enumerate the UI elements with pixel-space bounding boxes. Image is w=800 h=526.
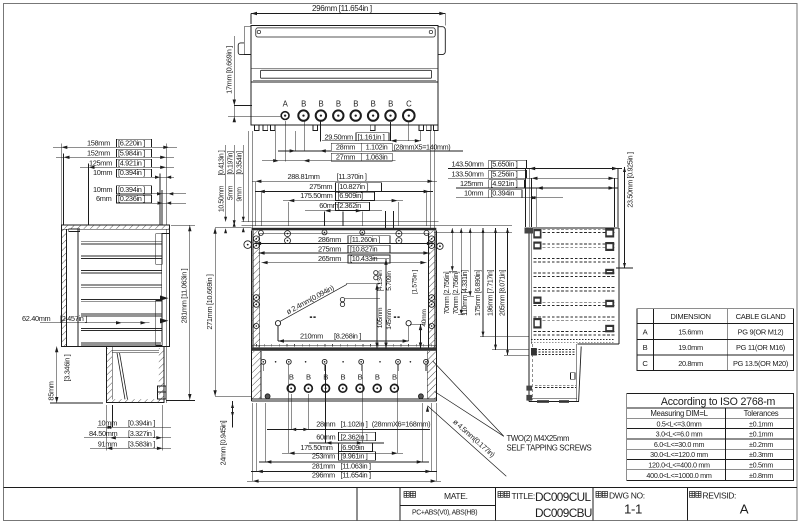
front view phi2.4 hole right [406, 321, 411, 326]
tolerance table [627, 394, 794, 481]
dim 40mm vertical interior [420, 324, 422, 348]
svg-text:3.0<L<=6.0 mm: 3.0<L<=6.0 mm [656, 430, 703, 439]
svg-text:[2.457in ]: [2.457in ] [60, 314, 87, 323]
front view interior dash marks [310, 316, 312, 318]
left view hatched lid band [62, 226, 169, 229]
svg-text:According to ISO 2768-m: According to ISO 2768-m [661, 396, 776, 408]
svg-text:[5.256in ]: [5.256in ] [491, 169, 518, 178]
front view bottom edges [252, 398, 437, 400]
svg-text:±0.1mm: ±0.1mm [749, 419, 773, 428]
svg-text:±0.2mm: ±0.2mm [749, 440, 773, 449]
dim 296mm bottom [247, 480, 441, 482]
right view inner wall line [531, 228, 533, 344]
svg-text:9mm: 9mm [236, 187, 243, 202]
svg-text:62.40mm: 62.40mm [22, 314, 51, 323]
svg-text:152mm: 152mm [87, 148, 110, 157]
svg-text:17mm [0.669in ]: 17mm [0.669in ] [225, 46, 234, 94]
svg-text:1-1: 1-1 [624, 502, 642, 517]
svg-text:[0.236in ]: [0.236in ] [118, 194, 145, 203]
front view phi2.4 hole left [275, 321, 280, 326]
svg-text:DC009CBU: DC009CBU [535, 506, 592, 520]
svg-text:253mm: 253mm [312, 452, 335, 461]
svg-text:±0.5mm: ±0.5mm [749, 461, 773, 470]
dims 70/70/110/175/196/205 columns [451, 228, 453, 271]
title block title cell [498, 492, 503, 498]
svg-text:[11.370in ]: [11.370in ] [337, 172, 367, 181]
svg-text:A: A [643, 328, 649, 337]
svg-text:PG 13.5(OR M20): PG 13.5(OR M20) [733, 359, 788, 368]
svg-text:85mm: 85mm [47, 381, 56, 400]
svg-text:110mm [4.331in]: 110mm [4.331in] [462, 270, 469, 316]
svg-text:PG 11(OR M16): PG 11(OR M16) [736, 343, 785, 352]
cable gland table [637, 309, 794, 371]
top view right tab [438, 27, 445, 55]
svg-text:60mm: 60mm [316, 432, 335, 441]
dim 175.50mm bottom [282, 452, 403, 454]
svg-text:B: B [301, 99, 306, 108]
svg-text:[10.827in ]: [10.827in ] [338, 182, 369, 191]
svg-text:10.50mm: 10.50mm [218, 185, 225, 212]
svg-text:28mm: 28mm [336, 143, 355, 152]
svg-text:10mm: 10mm [98, 418, 117, 427]
svg-text:[3.346in ]: [3.346in ] [63, 354, 72, 381]
svg-text:23.50mm [0.925in ]: 23.50mm [0.925in ] [626, 152, 635, 208]
svg-text:[10.827in: [10.827in [350, 245, 378, 254]
svg-text:[4.134in: [4.134in [377, 270, 384, 292]
svg-text:[1.102in ]: [1.102in ] [341, 420, 368, 429]
svg-text:[0.197in]: [0.197in] [227, 151, 234, 175]
front view flange tick row [256, 344, 258, 346]
svg-text:ø 4.5mm(0.177in): ø 4.5mm(0.177in) [451, 417, 496, 459]
svg-text:TWO(2) M4X25mm: TWO(2) M4X25mm [507, 434, 570, 443]
dim 175.50mm above [283, 200, 403, 202]
right view ribs dashed [534, 228, 615, 230]
dim 281mm vertical (left view height) [189, 225, 191, 400]
svg-text:[2.362in ]: [2.362in ] [341, 432, 368, 441]
svg-text:271mm [10.669in ]: 271mm [10.669in ] [205, 274, 214, 330]
svg-text:[11.063in ]: [11.063in ] [341, 462, 371, 471]
right view lower box hatch bands [535, 348, 576, 350]
right view bottom wavy band [531, 339, 615, 341]
dim 23.50mm vertical [624, 167, 626, 268]
right view top-left corner tab [525, 228, 534, 234]
svg-text:B: B [388, 99, 393, 108]
front view top thick edge [252, 228, 437, 231]
svg-text:±0.1mm: ±0.1mm [749, 430, 773, 439]
svg-text:[0.394in: [0.394in [491, 189, 515, 198]
svg-text:±0.3mm: ±0.3mm [749, 450, 773, 459]
svg-text:PC+ABS(V0), ABS(HB): PC+ABS(V0), ABS(HB) [412, 510, 477, 517]
dim 281mm bottom [251, 470, 437, 472]
svg-text:[4.921in ]: [4.921in ] [118, 158, 145, 167]
svg-text:125mm: 125mm [89, 158, 112, 167]
svg-text:[3.327in ]: [3.327in ] [128, 429, 155, 438]
svg-text:B: B [375, 372, 380, 381]
front view wall bosses [253, 236, 259, 242]
left view right boss column [156, 234, 162, 265]
dim 29.50mm [322, 140, 421, 142]
svg-text:19.0mm: 19.0mm [678, 343, 703, 352]
svg-text:20.8mm: 20.8mm [678, 359, 703, 368]
dim rows under top view: 29.50mm 28mm 27mm [275, 131, 277, 162]
svg-text:1.102in: 1.102in [366, 143, 388, 152]
svg-text:27mm: 27mm [336, 152, 355, 161]
svg-text:30.0<L<=120.0 mm: 30.0<L<=120.0 mm [650, 450, 708, 459]
left view bottom dim extensions [105, 405, 107, 451]
svg-text:70mm [2.756in]: 70mm [2.756in] [444, 271, 451, 314]
svg-text:296mm: 296mm [312, 471, 335, 480]
svg-text:A: A [740, 502, 749, 517]
svg-text:B: B [358, 372, 363, 381]
front view B holes row [287, 384, 295, 392]
svg-text:28mm: 28mm [316, 420, 335, 429]
svg-text:91mm: 91mm [98, 439, 117, 448]
right view inner wall clip [571, 373, 576, 379]
svg-text:Tolerances: Tolerances [744, 409, 779, 418]
svg-text:5.709in: 5.709in [386, 271, 393, 291]
front view body outline [251, 230, 253, 400]
dim 125mm right [456, 187, 618, 189]
left view rib clips [160, 296, 169, 301]
dim 288.81mm [252, 180, 437, 182]
dim 60mm bottom [309, 442, 384, 444]
svg-text:(28mmX5=140mm): (28mmX5=140mm) [394, 142, 451, 151]
svg-text:120.0<L<=400.0 mm: 120.0<L<=400.0 mm [648, 461, 710, 470]
right view left edge clips [533, 229, 541, 239]
svg-text:24mm [0.945in]: 24mm [0.945in] [219, 420, 228, 465]
svg-text:ø 2.4mm(0.094in): ø 2.4mm(0.094in) [285, 283, 336, 316]
svg-text:[0.394in ]: [0.394in ] [128, 418, 155, 427]
svg-text:15.6mm: 15.6mm [678, 328, 703, 337]
left view outline [61, 225, 169, 346]
svg-text:0.5<L<=3.0mm: 0.5<L<=3.0mm [657, 419, 702, 428]
top view feet [254, 125, 259, 130]
svg-text:1.063in: 1.063in [366, 152, 388, 161]
left view top dim extension lines [60, 144, 62, 226]
svg-text:275mm: 275mm [309, 182, 332, 191]
top view small lid screws [257, 30, 260, 33]
dim 84.50mm bottom [84, 437, 171, 439]
svg-text:210mm: 210mm [300, 332, 323, 341]
svg-text:[6.220in ]: [6.220in ] [118, 138, 145, 147]
svg-text:[4.921in ]: [4.921in ] [491, 179, 518, 188]
svg-text:B: B [289, 372, 294, 381]
dim 253mm bottom [259, 461, 429, 463]
dim 60mm above [305, 210, 382, 212]
front view screw row [261, 359, 266, 364]
dim 210mm [278, 340, 409, 342]
front view lid lip lines [241, 221, 438, 223]
svg-text:[5.984in ]: [5.984in ] [118, 148, 145, 157]
svg-text:[6.909in]: [6.909in] [338, 191, 364, 200]
svg-text:40mm: 40mm [421, 309, 428, 327]
right column bottom extension ticks [449, 270, 457, 272]
dim 145mm vertical interior [385, 259, 387, 349]
left view inner wall surface [77, 229, 79, 346]
svg-text:10mm: 10mm [464, 189, 483, 198]
title block dwg no cell [596, 492, 601, 498]
svg-text:133.50mm: 133.50mm [452, 169, 484, 178]
svg-text:125mm: 125mm [460, 179, 483, 188]
title block [4, 487, 798, 489]
dim 296mm top [251, 13, 445, 15]
dim 10mm upper [146, 176, 174, 178]
dims 10.50mm 5mm 9mm [225, 145, 227, 222]
svg-text:265mm: 265mm [318, 254, 341, 263]
left view hatched left wall [62, 230, 67, 347]
dim 158mm [53, 146, 177, 148]
svg-text:5mm: 5mm [227, 185, 234, 200]
dim 10mm bottom [97, 426, 171, 428]
top view groove band [251, 68, 438, 70]
svg-text:SELF TAPPING SCREWS: SELF TAPPING SCREWS [507, 443, 592, 452]
stub extension lines above front view [385, 211, 387, 228]
svg-text:[1.161in ]: [1.161in ] [358, 132, 385, 141]
dim 27mm [262, 160, 331, 162]
svg-text:175mm [6.890in]: 175mm [6.890in] [475, 270, 482, 317]
svg-text:400.0<L<=1000.0 mm: 400.0<L<=1000.0 mm [646, 471, 711, 480]
svg-text:B: B [371, 99, 376, 108]
svg-text:[5.650in ]: [5.650in ] [491, 160, 518, 169]
svg-text:B: B [340, 372, 345, 381]
top view outline [251, 25, 438, 125]
dim 286mm [255, 242, 433, 244]
svg-text:286mm: 286mm [318, 235, 341, 244]
svg-text:175.50mm: 175.50mm [300, 191, 332, 200]
dim 85mm vertical [56, 346, 58, 403]
svg-text:[11.260in ]: [11.260in ] [350, 235, 380, 244]
dim 152mm [56, 156, 174, 158]
svg-text:A: A [283, 99, 289, 108]
svg-text:B: B [306, 372, 311, 381]
dim 91mm bottom [90, 447, 171, 449]
dim 6mm [146, 202, 186, 204]
right view right edge clips [605, 229, 614, 238]
right view outline [529, 227, 619, 229]
left view lower box [106, 346, 164, 402]
svg-text:[0.394in ]: [0.394in ] [118, 185, 145, 194]
front view mid dark flange band [252, 344, 437, 346]
front view outside bosses [244, 241, 252, 249]
front view right wall hatch [428, 230, 435, 347]
leader phi 2.4mm [280, 284, 347, 321]
leader phi 4.5mm [428, 406, 507, 477]
front view corner screws [265, 394, 270, 399]
top view left tab [244, 27, 251, 55]
left view top-left notch [69, 229, 80, 232]
svg-text:PG 9(OR M12): PG 9(OR M12) [738, 328, 784, 337]
svg-text:CABLE GLAND: CABLE GLAND [736, 312, 787, 321]
extension lines below front view [290, 394, 292, 429]
dim 28mm (28mmX5=140mm) [278, 150, 332, 152]
right view lower box [529, 401, 579, 403]
dim 275mm inner [259, 252, 430, 254]
right view lower-left clip [531, 348, 537, 356]
dim 28mm bottom (28mmX6=168mm) [267, 428, 430, 430]
right view feet [526, 386, 532, 391]
svg-text:10mm: 10mm [93, 185, 112, 194]
svg-text:10mm: 10mm [93, 168, 112, 177]
svg-text:158mm: 158mm [87, 138, 110, 147]
svg-text:296mm [11.654in ]: 296mm [11.654in ] [312, 4, 372, 13]
svg-text:[3.583in ]: [3.583in ] [128, 439, 155, 448]
leader self tapping screws [435, 392, 504, 437]
title block revision cell [690, 492, 695, 498]
top view lid strip [256, 28, 435, 37]
svg-text:105mm: 105mm [377, 307, 384, 328]
dim 275mm above [255, 191, 433, 193]
front view lower walls [252, 351, 261, 399]
dim 133.50mm [448, 177, 618, 179]
title block material cell [404, 492, 409, 498]
svg-text:B: B [353, 99, 358, 108]
left view right wall lines [165, 229, 167, 403]
svg-text:[2.362in: [2.362in [338, 201, 362, 210]
svg-text:143.50mm: 143.50mm [452, 160, 484, 169]
right view top dim extensions [525, 169, 527, 228]
dim 265mm [262, 262, 427, 264]
svg-text:B: B [643, 343, 648, 352]
svg-text:70mm [2.756in]: 70mm [2.756in] [453, 271, 460, 314]
svg-text:MATE.: MATE. [444, 491, 468, 501]
svg-text:DWG NO:: DWG NO: [609, 491, 645, 501]
svg-text:DIMENSION: DIMENSION [670, 312, 710, 321]
svg-text:281mm [11.063in ]: 281mm [11.063in ] [180, 268, 189, 323]
dim 10mm lower [146, 193, 186, 195]
dim 125mm [80, 166, 174, 168]
svg-text:84.50mm: 84.50mm [89, 429, 118, 438]
svg-text:DC009CUL: DC009CUL [535, 490, 592, 504]
dim 24mm vertical bottom-left [232, 401, 234, 428]
svg-text:196mm [7.717in]: 196mm [7.717in] [487, 270, 494, 317]
svg-text:REVISID:: REVISID: [703, 491, 737, 501]
svg-text:29.50mm: 29.50mm [325, 132, 354, 141]
extension lines above front view [248, 131, 250, 222]
svg-text:C: C [406, 99, 412, 108]
svg-text:(28mmX6=168mm): (28mmX6=168mm) [372, 420, 431, 429]
svg-text:205mm [8.071in]: 205mm [8.071in] [499, 270, 506, 317]
svg-text:[9.961in ]: [9.961in ] [341, 452, 368, 461]
left view step [61, 345, 106, 347]
svg-text:B: B [392, 372, 397, 381]
svg-text:TITLE:: TITLE: [512, 491, 535, 501]
svg-text:6mm: 6mm [96, 194, 112, 203]
svg-text:C: C [642, 359, 648, 368]
svg-text:[0.354in]: [0.354in] [236, 151, 243, 175]
dim 143.50mm [448, 168, 622, 170]
front view interior hole pair center [340, 297, 344, 301]
svg-text:Measuring DIM=L: Measuring DIM=L [650, 409, 708, 418]
front view left wall hatch [252, 230, 259, 347]
svg-text:[0.394in ]: [0.394in ] [118, 168, 145, 177]
svg-text:[1.575in ]: [1.575in ] [412, 270, 419, 295]
left view ribs [81, 241, 161, 243]
dim 10mm right [456, 197, 563, 199]
dim 17mm left of top view [233, 36, 235, 122]
svg-text:±0.8mm: ±0.8mm [749, 471, 773, 480]
svg-text:B: B [336, 99, 341, 108]
left view lower box diagonal wall [117, 353, 125, 400]
dim 271mm vertical (front view height) [214, 228, 216, 396]
right view lower box left edge dashed [531, 344, 533, 400]
svg-text:6.0<L<=30.0 mm: 6.0<L<=30.0 mm [654, 440, 705, 449]
left view lower box right bracket [158, 386, 167, 399]
top view cable-gland holes row [281, 112, 289, 120]
svg-text:[8.268in ]: [8.268in ] [334, 332, 361, 341]
svg-text:288.81mm: 288.81mm [288, 172, 320, 181]
front view top row screws [258, 230, 263, 235]
svg-text:275mm: 275mm [318, 245, 341, 254]
svg-text:145mm: 145mm [386, 308, 393, 329]
dim 105mm vertical interior [376, 284, 378, 349]
svg-text:281mm: 281mm [312, 462, 335, 471]
svg-text:B: B [318, 99, 323, 108]
svg-text:[11.654in ]: [11.654in ] [341, 471, 371, 480]
svg-text:[0.413in ]: [0.413in ] [218, 150, 225, 175]
